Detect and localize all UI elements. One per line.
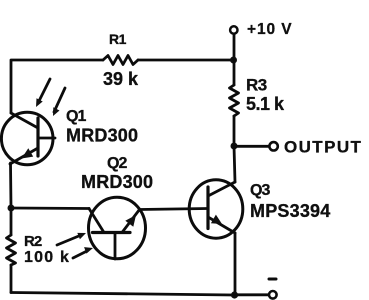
wire top rail right (R1 right to +10V node) [138, 59, 233, 62]
svg-text:R3: R3 [246, 76, 267, 95]
node bottom junction [231, 291, 238, 298]
terminal +10V [230, 26, 237, 33]
wire R2 bottom to bottom rail [10, 265, 13, 293]
label minus sign [269, 278, 276, 281]
svg-text:R2: R2 [24, 233, 42, 250]
Q1 emitter arrow [22, 148, 34, 158]
wire left junction to Q2 collector [11, 207, 89, 210]
light arrow 1 into Q2 [57, 233, 86, 245]
svg-text:MRD300: MRD300 [81, 172, 153, 192]
Q1 collector line [11, 113, 38, 128]
Q3 emitter arrow [211, 215, 222, 224]
wire top rail left (R1 left to top-left corner) [11, 60, 103, 113]
svg-text:MRD300: MRD300 [66, 126, 138, 146]
resistor R3 [230, 85, 239, 116]
wire Q3 collector up to output node [234, 146, 235, 182]
wire Q2 emitter to Q3 base [140, 209, 209, 210]
Q1 base lead [38, 137, 55, 140]
node output junction [231, 143, 238, 150]
wire junction to R2 top [10, 208, 13, 235]
phototransistor Q2 circle [89, 197, 146, 259]
phototransistor Q1 circle [1, 112, 53, 164]
svg-text:+10 V: +10 V [247, 21, 292, 38]
svg-text:Q3: Q3 [250, 182, 270, 199]
light arrow 1 into Q1 [36, 79, 50, 107]
svg-text:MPS3394: MPS3394 [250, 201, 330, 221]
svg-text:Q2: Q2 [107, 155, 127, 172]
svg-text:5.1 k: 5.1 k [246, 94, 285, 114]
wire output node to terminal [234, 145, 269, 148]
resistor R2 [7, 235, 16, 265]
transistor Q3 circle [189, 180, 243, 238]
terminal OUTPUT [269, 142, 277, 150]
light arrow 2 into Q2 [73, 247, 93, 258]
transistor Q2 base bar [93, 231, 131, 234]
svg-text:39 k: 39 k [103, 69, 139, 89]
light arrow 2 into Q1 [53, 88, 65, 116]
svg-text:100 k: 100 k [24, 249, 70, 266]
wire Q3 emitter down to bottom rail [234, 233, 237, 295]
resistor R1 [103, 56, 138, 65]
terminal minus [269, 291, 277, 299]
Q2 collector line [89, 209, 104, 233]
node left junction [8, 205, 15, 212]
wire +10V terminal to node [233, 35, 236, 61]
svg-text:OUTPUT: OUTPUT [284, 138, 362, 157]
Q2 base lead [114, 233, 117, 260]
transistor Q1 base bar [36, 118, 39, 156]
wire node to R3 top [233, 60, 236, 85]
Q3 collector line [208, 182, 235, 196]
Q2 emitter line [122, 210, 140, 233]
transistor Q3 base bar [206, 187, 209, 229]
wire bottom rail [11, 293, 234, 296]
wire bottom junction to minus terminal [234, 293, 268, 296]
wire R3 bottom to output node [233, 116, 236, 146]
Q3 emitter line [208, 217, 235, 233]
Q2 emitter arrow [125, 215, 136, 227]
wire Q1 emitter down to left junction [9, 163, 12, 208]
Q1 emitter line [10, 148, 38, 164]
svg-text:R1: R1 [109, 31, 127, 47]
node top (junction dot at +10V rail) [230, 57, 237, 64]
svg-text:Q1: Q1 [66, 108, 86, 125]
